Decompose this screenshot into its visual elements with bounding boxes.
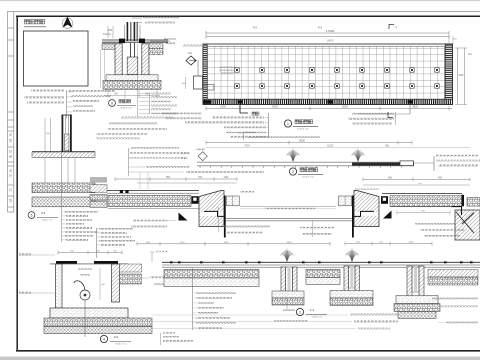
det3 post C — [407, 266, 412, 296]
det3 right leaders — [444, 277, 478, 279]
det5 leader texts — [66, 90, 68, 118]
det3 top surface — [162, 261, 480, 263]
right wall corner block — [455, 210, 480, 240]
svg-text:17500: 17500 — [326, 29, 335, 33]
rpool bed end wedge — [383, 211, 392, 219]
plan bottom dim row — [206, 108, 452, 110]
det6 anchor bolts — [130, 43, 132, 58]
main frame top — [16, 15, 480, 17]
det4 title-side callouts — [160, 333, 162, 345]
rpool pebble bed — [382, 193, 462, 195]
det3 surface black ticks — [170, 261, 473, 263]
elev top leader texts — [243, 132, 256, 134]
plan right leaders — [409, 105, 411, 114]
det5 mid dims — [44, 157, 46, 183]
cpool left strata column — [90, 177, 107, 183]
elev right bracket texts — [433, 156, 435, 171]
det6 right wall — [142, 44, 149, 75]
cpool leader drops — [139, 172, 141, 189]
svg-text:1390: 1390 — [224, 242, 230, 244]
plan inlet box left — [194, 76, 203, 89]
svg-text:1700: 1700 — [180, 242, 186, 244]
det6 rail — [102, 39, 168, 41]
det6 layer callouts — [149, 92, 151, 114]
cpool step channel — [200, 212, 223, 216]
index plan title — [25, 20, 45, 24]
section mark L1 — [388, 112, 393, 118]
det3 post B labels — [283, 309, 295, 311]
svg-text:P.A: P.A — [468, 53, 472, 56]
det4 base bands — [44, 318, 152, 327]
note text under box — [31, 90, 64, 92]
det3 spray above post B — [345, 248, 359, 262]
cpool small dims above step — [240, 191, 254, 193]
det4 bottom slab — [50, 308, 128, 318]
rpool drain box — [381, 196, 388, 204]
det6 footing layers — [106, 75, 158, 81]
svg-text:P.A: P.A — [188, 51, 192, 55]
left title strip — [8, 12, 14, 212]
det4 interior dims — [99, 268, 101, 300]
det3 pad middle — [306, 270, 340, 278]
det3 title — [296, 308, 303, 315]
det5 title — [28, 212, 35, 219]
left annotation stack — [239, 105, 241, 113]
rpool steel plate — [352, 196, 354, 238]
det6 left wall — [115, 44, 122, 75]
north arrow — [62, 17, 72, 28]
pavement end wedge — [179, 213, 188, 221]
svg-text:2: 2 — [292, 170, 294, 174]
main frame bottom — [16, 350, 480, 352]
svg-text:4200: 4200 — [458, 75, 464, 77]
svg-text:SCALE 1:10: SCALE 1:10 — [120, 107, 132, 110]
index plan box — [24, 31, 89, 86]
svg-text:SCALE 1:10: SCALE 1:10 — [41, 218, 53, 221]
PA diamond arrow — [186, 56, 196, 65]
svg-text:3: 3 — [299, 310, 301, 314]
rpool mortar blocks — [339, 196, 352, 206]
svg-text:P.A: P.A — [253, 26, 257, 30]
det3 top dim right — [345, 242, 432, 244]
rpool coping + wall mass — [354, 191, 379, 227]
svg-text:1100: 1100 — [224, 177, 230, 179]
elev tick feet — [200, 166, 401, 168]
det4 top dim — [58, 252, 122, 254]
right wall corner L — [452, 207, 462, 215]
det6 lower annotations — [121, 117, 173, 119]
det6 footing dim verticals — [104, 46, 106, 88]
plan inner line — [207, 46, 445, 99]
sheet top thin line — [7, 11, 480, 13]
svg-text:SCALE 1:10: SCALE 1:10 — [311, 315, 323, 318]
det5 crosshatch band — [32, 197, 95, 207]
det4 left labels — [19, 254, 31, 256]
svg-text:150: 150 — [108, 29, 113, 32]
det3 left text column — [192, 268, 194, 330]
svg-text:1-1: 1-1 — [310, 308, 315, 312]
cpool surface clips — [120, 190, 123, 193]
det3 post A — [281, 267, 286, 301]
det6 left dims — [107, 26, 109, 38]
pool waterline — [240, 205, 336, 207]
rpool bed end cap — [461, 195, 464, 207]
det4 base leaders right — [350, 314, 400, 316]
svg-text:5: 5 — [31, 213, 33, 217]
plan left edge band — [203, 44, 207, 105]
det4 top callouts — [96, 228, 98, 258]
mid annotation bracket stack — [128, 148, 130, 176]
fountain spray 2 — [351, 148, 365, 162]
svg-text:3-3: 3-3 — [41, 211, 46, 215]
cpool steel plate — [224, 196, 226, 238]
elev dim line — [206, 142, 412, 144]
svg-text:6000: 6000 — [272, 106, 278, 109]
plan right edge band — [445, 44, 452, 105]
top page edge line — [0, 0, 480, 2]
rpool step channel — [355, 212, 378, 216]
svg-text:6: 6 — [111, 101, 113, 105]
det4 pump — [80, 290, 90, 300]
det3 surface note — [155, 251, 168, 253]
main frame left — [16, 16, 18, 351]
cpool coping + wall mass — [199, 191, 224, 227]
pool floor lines — [226, 217, 352, 219]
fountain spray 1 — [286, 148, 300, 162]
svg-text:2-2: 2-2 — [114, 335, 119, 339]
svg-text:2500: 2500 — [220, 106, 226, 109]
rpool bed bottom line — [390, 206, 462, 208]
det5 post — [62, 115, 64, 152]
det3 right ground bands — [428, 270, 478, 278]
det4 coping bars — [56, 261, 77, 264]
plan fixture symbols — [235, 68, 440, 89]
elev water bar — [197, 161, 414, 163]
elev slope marker — [198, 152, 207, 161]
svg-text:4: 4 — [103, 337, 105, 341]
det6 leader texts top — [143, 17, 179, 19]
cpool pebble bed — [108, 195, 191, 206]
det6 posts — [127, 22, 129, 41]
det5 callout stack — [61, 150, 63, 242]
plan title — [284, 120, 291, 127]
det3 spray above post A — [280, 248, 294, 262]
svg-text:P.A: P.A — [318, 26, 322, 30]
plan left notch — [203, 85, 214, 91]
svg-text:11200: 11200 — [327, 145, 334, 148]
svg-text:9600: 9600 — [299, 139, 305, 143]
rpool leader texts — [300, 227, 334, 229]
elev title — [289, 168, 296, 175]
plan grid — [207, 46, 445, 99]
det4 center drop line — [84, 300, 86, 337]
svg-text:1: 1 — [287, 122, 289, 126]
plan top dim lines — [206, 32, 449, 34]
svg-text:1600: 1600 — [409, 241, 415, 243]
cpool bottom dim — [137, 243, 330, 245]
plan band corner blob — [203, 100, 211, 104]
cpool leader texts — [133, 220, 167, 222]
det6 bottom dims — [107, 90, 109, 98]
rpool top dims — [363, 178, 470, 180]
det5 ground hatch band — [32, 151, 95, 153]
svg-text:900: 900 — [385, 145, 390, 148]
cpool pavement surface — [107, 189, 199, 191]
det3 sub-base pad left — [164, 270, 259, 279]
det3 post B — [344, 266, 349, 292]
det4 right wall — [112, 264, 120, 302]
det4 title — [100, 335, 107, 342]
cpool mortar blocks — [226, 196, 239, 206]
cpool top dims — [115, 178, 237, 180]
det6 left ground hatch — [102, 44, 115, 50]
plan right dims — [457, 48, 459, 105]
svg-text:SCALE 1:10: SCALE 1:10 — [115, 342, 127, 345]
svg-text:SCALE 1:50: SCALE 1:50 — [302, 175, 314, 178]
plan leader blobs on bottom band — [237, 100, 242, 103]
det4 right ground bands — [120, 264, 142, 272]
det6 title — [109, 100, 116, 107]
rpool bed continuation — [467, 198, 480, 207]
svg-text:16800: 16800 — [326, 39, 334, 43]
det6 anchor block — [127, 57, 138, 75]
svg-text:4400: 4400 — [287, 242, 293, 244]
det4 right leaders — [150, 277, 202, 279]
det6 right ground — [149, 44, 163, 49]
inlet dims — [185, 77, 187, 89]
svg-text:2800: 2800 — [412, 106, 418, 109]
det4 left wall — [56, 264, 63, 308]
section mark top — [389, 25, 394, 30]
det5 pebble band — [32, 183, 95, 193]
plan inner tiny labels — [219, 67, 235, 69]
bottom page gray strip — [0, 357, 480, 360]
det5 dim verticals — [44, 118, 46, 152]
rpool 950 dim — [397, 212, 450, 214]
plan outline — [203, 44, 453, 105]
svg-text:6000: 6000 — [342, 106, 348, 109]
rpool small dims — [355, 189, 379, 191]
plan bottom band — [203, 99, 453, 104]
svg-text:SCALE 1:50: SCALE 1:50 — [297, 127, 309, 130]
svg-text:7500: 7500 — [244, 145, 250, 148]
cpool drain box — [192, 196, 199, 204]
cpool center pipe note — [265, 208, 315, 210]
